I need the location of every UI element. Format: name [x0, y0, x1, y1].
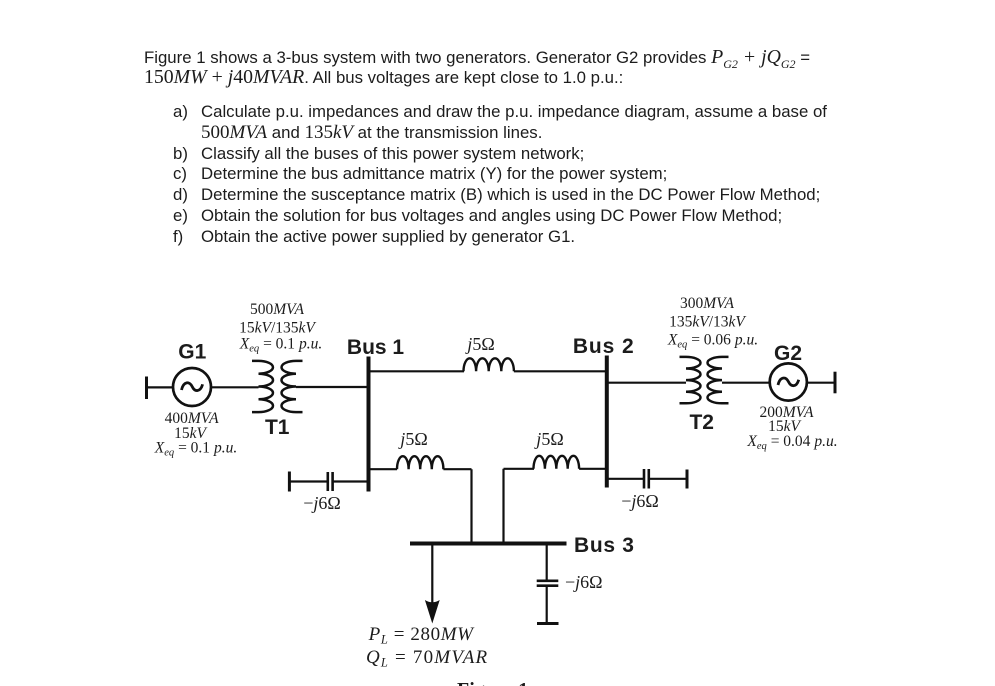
wire corner down to Bus3 [470, 469, 472, 543]
svg-text:G2: G2 [774, 342, 802, 365]
wire cap to Bus1 [333, 480, 369, 482]
wire T2 to G2 [722, 382, 770, 384]
svg-text:Bus 2: Bus 2 [573, 335, 635, 358]
svg-text:QL = 70MVAR: QL = 70MVAR [366, 647, 488, 670]
svg-text:Bus 1: Bus 1 [347, 336, 405, 359]
wire terminal to G1 [147, 386, 174, 388]
wire Bus1 to line inductor [369, 370, 465, 372]
wire G1 to T1 [211, 386, 259, 388]
wire corner to lower-right inductor [504, 468, 535, 470]
generator G1 terminal bar [145, 377, 148, 400]
capacitor C-bus1 terminal bar [288, 472, 291, 492]
wire Bus2 to right cap plates [607, 478, 644, 480]
svg-text:PL = 280MW: PL = 280MW [368, 624, 476, 647]
wire cap3 down [546, 586, 548, 624]
wire inductor to Bus2 [579, 468, 607, 470]
bus 1 bar [367, 357, 371, 492]
svg-text:−j6Ω: −j6Ω [565, 572, 603, 592]
bus 2 bar [605, 356, 609, 488]
svg-text:−j6Ω: −j6Ω [621, 491, 659, 511]
svg-text:Figure 1: Figure 1 [457, 679, 528, 686]
capacitor C-bus1 plates [328, 472, 333, 491]
inductor j5 line 2-3 [534, 456, 580, 469]
capacitor C-bus2 plates [644, 469, 649, 489]
wire T1 to Bus 1 [296, 386, 369, 388]
svg-text:j5Ω: j5Ω [465, 334, 494, 354]
wire Bus2 to T2 [607, 382, 686, 384]
wire terminal to cap plates [289, 480, 327, 482]
svg-text:T2: T2 [689, 411, 714, 434]
svg-text:Bus 3: Bus 3 [574, 534, 635, 557]
load arrow line [431, 544, 433, 604]
capacitor C-bus3 terminal bar [537, 622, 559, 625]
wire inductor to Bus2 [514, 370, 607, 372]
transformer T2 [680, 357, 729, 403]
wire G2 to terminal [807, 382, 835, 384]
svg-text:15kV/135kV: 15kV/135kV [239, 320, 316, 337]
svg-text:j5Ω: j5Ω [534, 429, 563, 449]
wire Bus1 to lower-left inductor [369, 468, 398, 470]
generator G1 [173, 368, 211, 406]
svg-text:j5Ω: j5Ω [398, 429, 427, 449]
svg-text:Xeq = 0.04 p.u.: Xeq = 0.04 p.u. [746, 433, 837, 452]
svg-text:G1: G1 [178, 341, 206, 364]
svg-text:500MVA: 500MVA [250, 301, 304, 318]
wire corner down to Bus3 right branch [502, 469, 504, 544]
generator G2 [770, 363, 807, 400]
transformer T1 [252, 361, 303, 412]
svg-text:Xeq = 0.06 p.u.: Xeq = 0.06 p.u. [667, 332, 758, 351]
bus 3 bar [410, 542, 567, 546]
svg-text:−j6Ω: −j6Ω [303, 493, 341, 513]
svg-text:135kV/13kV: 135kV/13kV [669, 314, 746, 331]
svg-text:Xeq = 0.1 p.u.: Xeq = 0.1 p.u. [154, 440, 237, 459]
inductor j5 line 1-2 [464, 358, 514, 371]
svg-text:Xeq = 0.1 p.u.: Xeq = 0.1 p.u. [239, 336, 322, 355]
svg-text:T1: T1 [265, 416, 290, 439]
wire inductor to corner [443, 468, 471, 470]
svg-text:300MVA: 300MVA [680, 295, 734, 312]
capacitor C-bus3 plates [537, 581, 559, 586]
capacitor C-bus2 terminal bar [686, 470, 689, 489]
inductor j5 line 1-3 [397, 456, 443, 469]
wire Bus3 to cap3 [546, 544, 548, 582]
load arrowhead [425, 600, 440, 624]
generator G2 terminal bar [834, 372, 837, 394]
wire cap to terminal [649, 478, 687, 480]
